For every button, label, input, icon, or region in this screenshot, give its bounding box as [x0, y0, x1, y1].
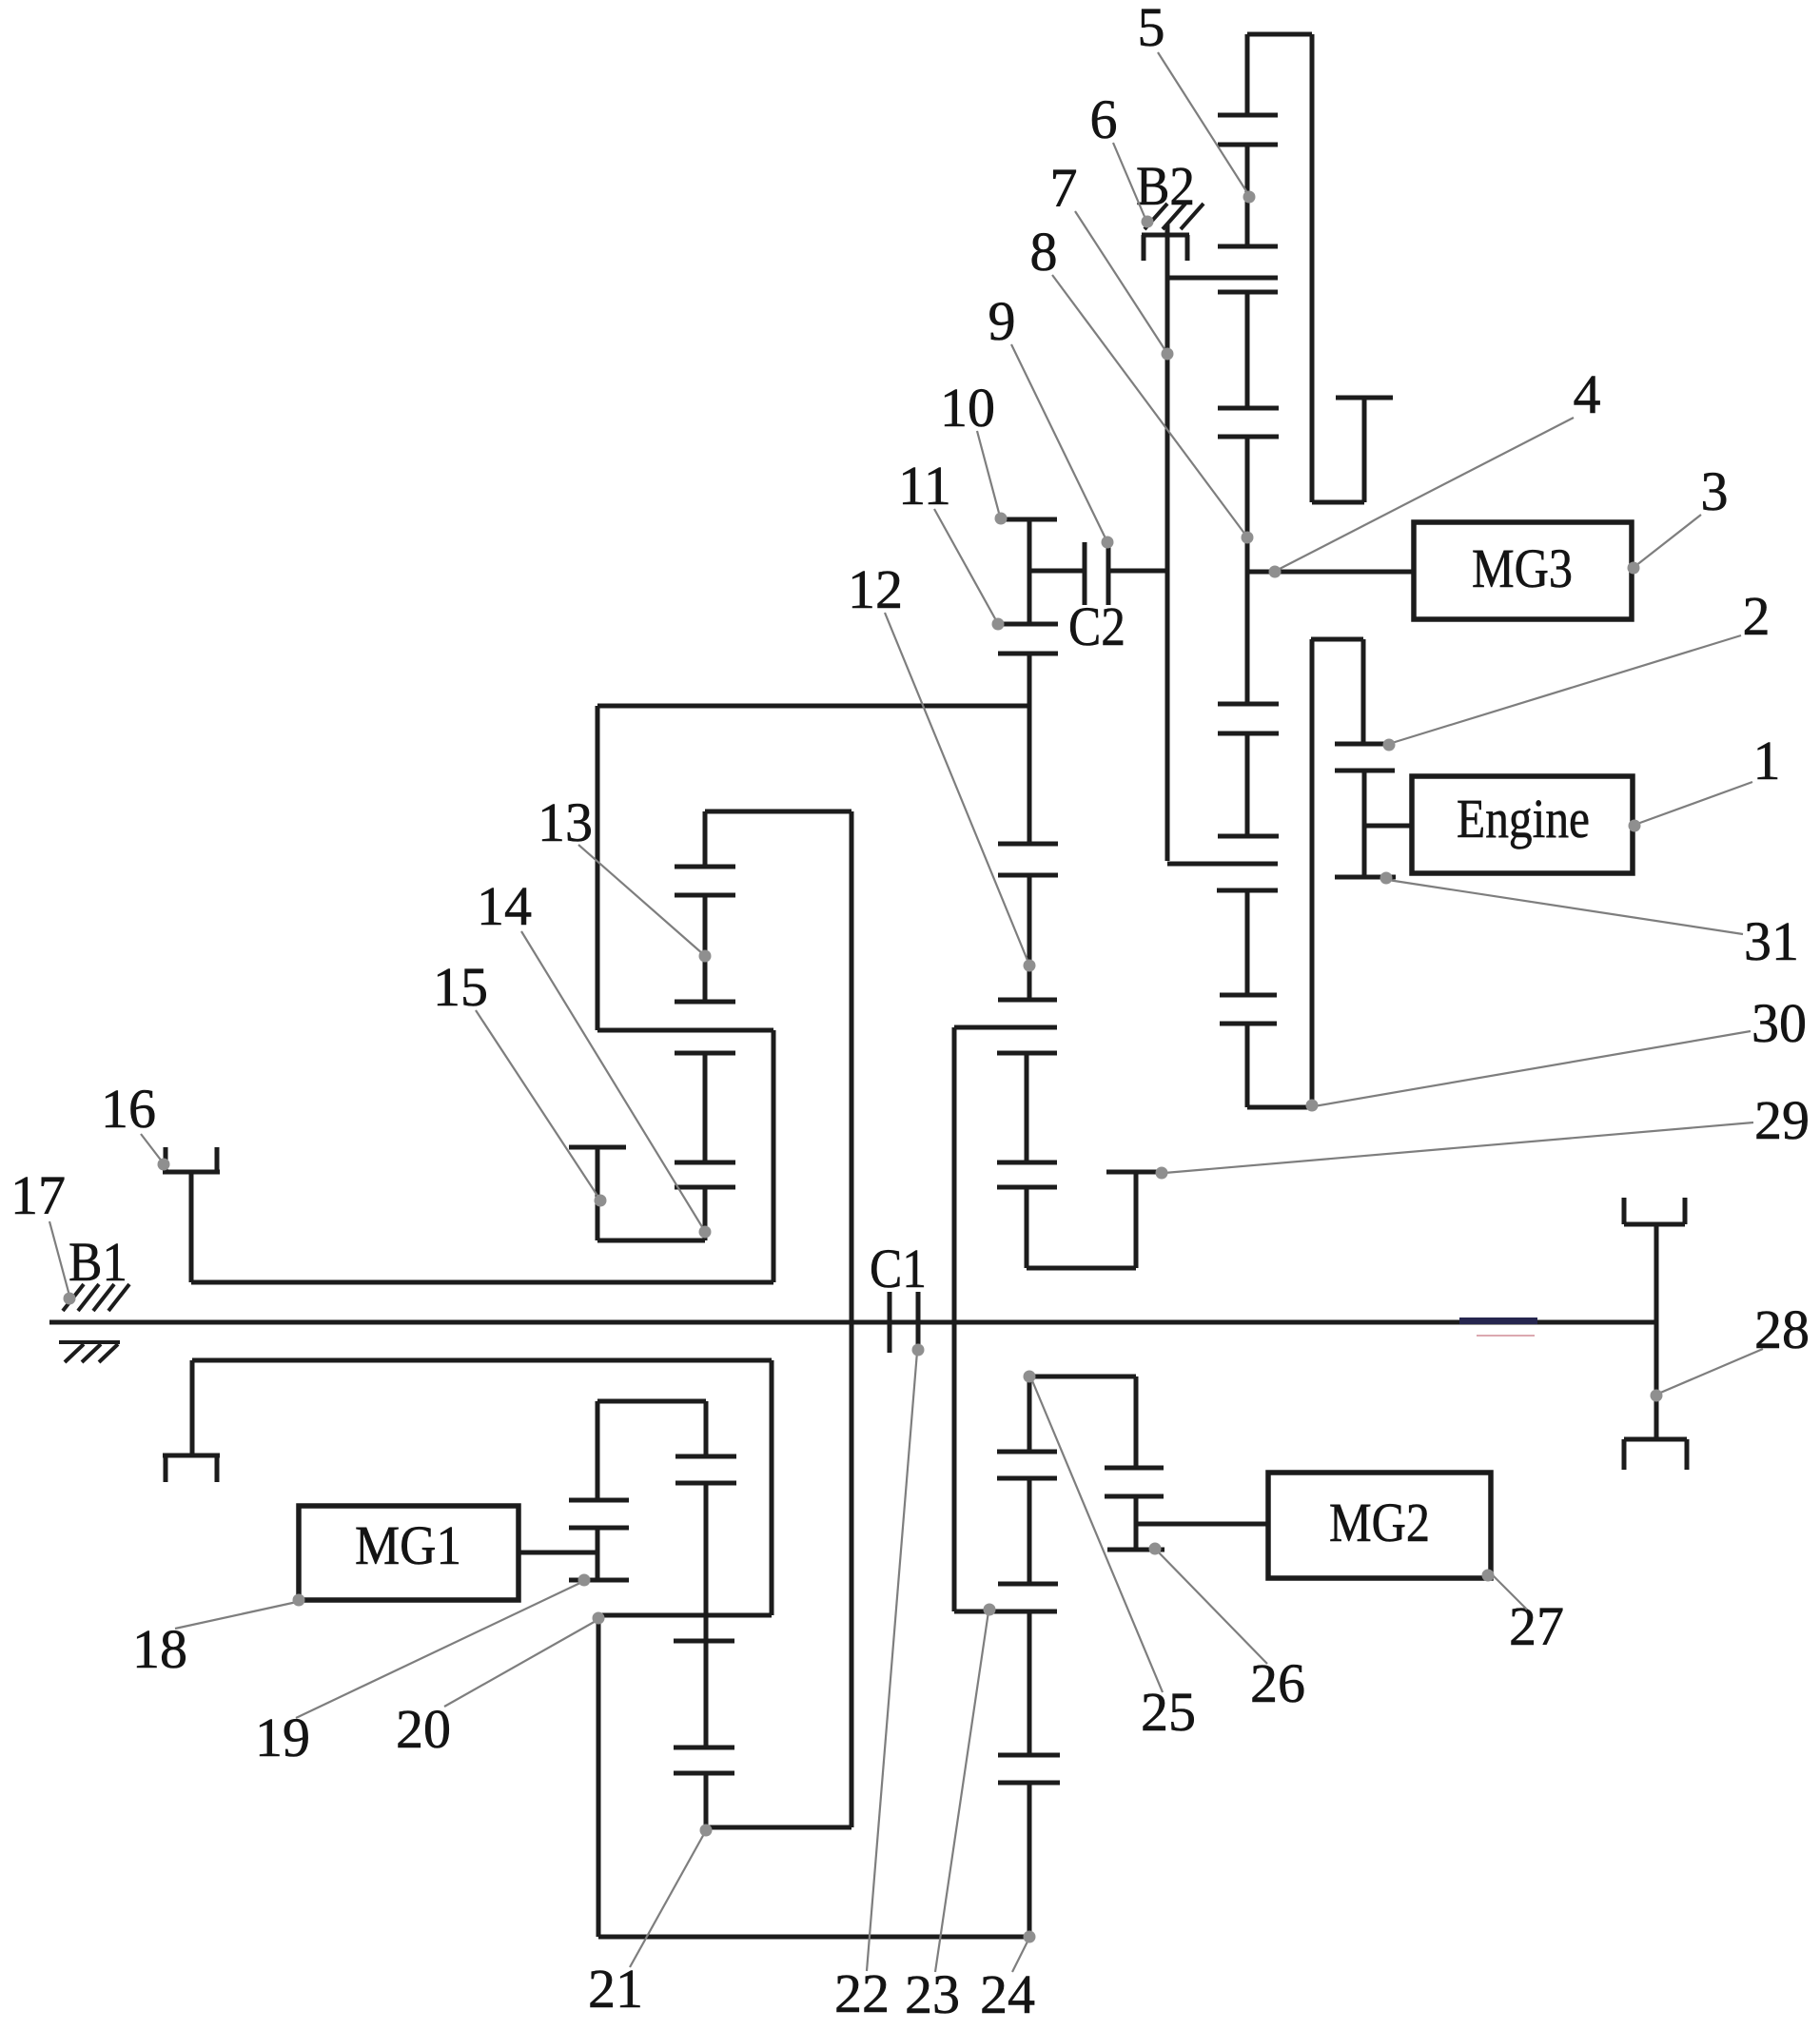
brake B1 ground hatch upper	[63, 1284, 129, 1311]
gear mesh plates pair y1577/1606	[569, 1500, 629, 1528]
wire right vertical x1379 lower	[1310, 639, 1315, 1107]
wire carrier line lower-left (y1430)	[192, 1358, 772, 1363]
label C2	[1068, 595, 1125, 657]
gear mesh plates pair y121/152	[1218, 115, 1278, 145]
gear mesh plates pair y740/771	[1218, 704, 1279, 733]
leader 12	[885, 613, 1036, 972]
svg-text:B2: B2	[1136, 155, 1195, 217]
output element 28 lower bracket	[1624, 1439, 1687, 1470]
stem x1433 y672-782	[1361, 639, 1366, 744]
svg-text:11: 11	[898, 455, 951, 517]
svg-text:6: 6	[1090, 88, 1118, 150]
wire long vertical x1003	[952, 1027, 957, 1611]
stem x1194 y1447-1543	[1134, 1376, 1139, 1468]
svg-text:24: 24	[980, 1963, 1035, 2025]
label 30	[1752, 992, 1807, 1054]
gear mesh plates pair y429/459	[1218, 408, 1279, 437]
gear mesh plates pair y1526/1554	[997, 1452, 1057, 1478]
stem x1082 y1554-1665	[1027, 1478, 1032, 1584]
element 29 arm x1194	[1134, 1172, 1139, 1268]
gear mesh plate y259	[1218, 244, 1278, 249]
svg-text:10: 10	[940, 377, 995, 439]
gear mesh plate y1107 center	[997, 1051, 1057, 1056]
leader 3	[1628, 515, 1702, 575]
svg-text:31: 31	[1744, 910, 1799, 972]
faint pink artifact line	[1477, 1335, 1535, 1337]
sun shaft stem x741 upper	[703, 811, 708, 867]
label 28	[1754, 1298, 1810, 1360]
gear mesh plates pair y1046/1076	[1220, 995, 1277, 1024]
gear mesh plate y1665	[998, 1582, 1058, 1587]
leader 18	[175, 1594, 305, 1630]
label 27	[1509, 1595, 1564, 1657]
wire vertical x811	[770, 1360, 774, 1615]
wire shaft blue tint segment	[1459, 1318, 1537, 1324]
wire main shaft	[49, 1320, 1655, 1325]
svg-text:2: 2	[1743, 585, 1771, 647]
label 2	[1743, 585, 1771, 647]
label 3	[1701, 460, 1729, 522]
output element 28 upper bracket	[1624, 1198, 1685, 1224]
leader 31	[1380, 872, 1744, 935]
carrier line y1694	[954, 1610, 1057, 1614]
output stem x1741	[1654, 1224, 1659, 1439]
clutch C2 plates	[1085, 542, 1108, 605]
svg-text:5: 5	[1138, 0, 1165, 58]
gear mesh plate y1725	[674, 1639, 734, 1644]
svg-text:MG2: MG2	[1329, 1492, 1430, 1553]
label 17	[10, 1164, 66, 1226]
carrier line y1080	[954, 1025, 1057, 1030]
svg-text:C2: C2	[1068, 595, 1125, 657]
label 29	[1754, 1089, 1810, 1151]
label 23	[905, 1963, 960, 2025]
stem x1082 y687-887	[1027, 654, 1032, 844]
leader 15	[476, 1010, 607, 1207]
label 13	[538, 791, 593, 853]
stem x742 to cup	[704, 1773, 709, 1827]
wire element30 bottom y1164	[1247, 1105, 1312, 1110]
ring bracket 13 top edge	[597, 704, 1029, 709]
svg-text:3: 3	[1701, 460, 1729, 522]
svg-text:C1: C1	[870, 1238, 927, 1299]
stem x1082 y1694-1845	[1027, 1611, 1032, 1755]
svg-text:25: 25	[1141, 1681, 1196, 1743]
svg-text:4: 4	[1574, 363, 1601, 425]
stem x1311 y152-259	[1245, 145, 1250, 246]
ring bracket 13 left edge upper	[596, 706, 600, 1030]
leader 29	[1156, 1122, 1754, 1180]
wire vertical x813	[772, 1030, 776, 1282]
label 7	[1050, 157, 1078, 219]
leader 19	[296, 1574, 591, 1719]
leader 1	[1629, 782, 1753, 832]
stem x1311 y459-740 with MG3 tee	[1245, 437, 1250, 704]
leader 16	[141, 1134, 170, 1171]
node 16 lower bracket	[163, 1360, 220, 1482]
gear mesh plates pair y1531/1559	[675, 1456, 736, 1483]
svg-text:12: 12	[848, 558, 903, 620]
leader 5	[1158, 52, 1256, 204]
leader 10	[977, 431, 1008, 525]
label 12	[848, 558, 903, 620]
gear mesh plate y879	[1218, 834, 1279, 839]
svg-text:1: 1	[1753, 730, 1781, 791]
gear mesh plate y1107	[675, 1051, 735, 1056]
label 14	[477, 875, 532, 937]
gear mesh plate y1051	[998, 998, 1057, 1003]
leader 24	[1012, 1931, 1036, 1973]
element 10 tee bar	[999, 517, 1057, 522]
svg-text:15: 15	[433, 956, 488, 1018]
label 9	[988, 290, 1016, 352]
gear mesh plate y936	[1217, 888, 1278, 893]
carrier bracket top edge y1447	[1029, 1375, 1136, 1379]
stem x1082 y1874-2036	[1027, 1783, 1032, 1937]
leader 25	[1024, 1371, 1164, 1693]
ring bracket 21 left edge lower	[597, 1617, 601, 1937]
svg-text:26: 26	[1250, 1652, 1305, 1714]
label 25	[1141, 1681, 1196, 1743]
wire MG2 shaft	[1136, 1522, 1268, 1527]
label 4	[1574, 363, 1601, 425]
carrier 14 inner top edge	[705, 810, 851, 814]
wire C2 shaft right	[1108, 569, 1167, 574]
svg-text:28: 28	[1754, 1298, 1810, 1360]
label B2	[1136, 155, 1195, 217]
svg-text:16: 16	[101, 1078, 156, 1140]
svg-text:Engine: Engine	[1457, 788, 1590, 849]
label 1	[1753, 730, 1781, 791]
wire MG3 shaft	[1247, 570, 1413, 575]
tee bracket top right bar	[1336, 396, 1393, 400]
svg-text:23: 23	[905, 1963, 960, 2025]
svg-text:MG3: MG3	[1472, 537, 1573, 599]
label 21	[588, 1958, 643, 2020]
stem x1079 y1107-1222	[1025, 1053, 1029, 1162]
leader 2	[1383, 635, 1742, 751]
label 6	[1090, 88, 1118, 150]
wire engine shaft	[1364, 824, 1413, 829]
gear mesh plates pair y1845/1874	[998, 1755, 1060, 1783]
gear mesh plate y922	[1335, 875, 1396, 880]
leader 27	[1482, 1570, 1528, 1610]
label 19	[255, 1707, 310, 1768]
gear mesh plates pair y782/810	[1335, 744, 1395, 771]
gear mesh plates pair y1837/1864	[674, 1747, 734, 1773]
svg-text:B1: B1	[68, 1231, 127, 1293]
stem x1311 y307-429	[1245, 292, 1250, 408]
gear mesh plates 11 pair y656/687	[998, 624, 1058, 654]
wire right vertical x1379 upper	[1310, 34, 1315, 502]
brake B2 bracket	[1142, 235, 1189, 261]
carrier bracket top edge y1473	[597, 1399, 706, 1404]
svg-text:14: 14	[477, 875, 532, 937]
stem x1082 y1447-1526	[1027, 1376, 1032, 1452]
gear mesh plate y1629	[1107, 1548, 1164, 1552]
label 26	[1250, 1652, 1305, 1714]
brake B1 ground hatch lower	[59, 1342, 120, 1362]
gear mesh plate y1661	[569, 1578, 629, 1583]
tee bracket stem	[1362, 398, 1367, 502]
motor MG2 box	[1268, 1473, 1491, 1578]
label B1	[68, 1231, 127, 1293]
leader 20	[444, 1612, 605, 1708]
stem x742 upper	[704, 1401, 709, 1456]
gear mesh plates pair y1222/1248 center	[997, 1162, 1057, 1187]
label 15	[433, 956, 488, 1018]
cup bottom y1921	[706, 1825, 851, 1830]
svg-text:29: 29	[1754, 1089, 1810, 1151]
wire rect top edge y1698	[598, 1613, 772, 1618]
svg-text:8: 8	[1030, 221, 1058, 283]
label 20	[396, 1698, 451, 1760]
gear mesh plates pair y1222/1248	[675, 1162, 735, 1187]
leader 6	[1113, 143, 1154, 228]
gear mesh plate y307	[1218, 290, 1278, 295]
wire carrier line upper-left (y1348)	[191, 1280, 773, 1285]
leader 7	[1075, 211, 1174, 361]
stem x1311 y1076-1164	[1245, 1024, 1250, 1107]
element 15 tee bar	[569, 1145, 626, 1150]
bridge cap top y672	[1311, 637, 1363, 642]
leader 13	[578, 845, 712, 963]
cup bottom left PG	[597, 1239, 705, 1243]
label 24	[980, 1963, 1035, 2025]
stem x1082 from 10	[1027, 519, 1032, 624]
clutch C1 plates	[890, 1292, 918, 1353]
stem x1082 y920-1051	[1027, 875, 1032, 1000]
leader 23	[935, 1604, 996, 1973]
leader 17	[49, 1221, 76, 1305]
svg-text:17: 17	[10, 1164, 66, 1226]
label 11	[898, 455, 951, 517]
gear mesh plates pair y1543/1573	[1105, 1468, 1164, 1496]
label 22	[834, 1962, 890, 2024]
leader 9	[1011, 344, 1114, 549]
leader 4	[1269, 418, 1575, 578]
leader 11	[934, 509, 1005, 631]
stem x741 to cup	[703, 1187, 708, 1240]
leader 8	[1052, 275, 1254, 544]
stem x1311 y936-1046	[1245, 890, 1250, 995]
svg-text:9: 9	[988, 290, 1016, 352]
leader 22	[867, 1344, 925, 1972]
top bracket ring 5	[1247, 34, 1312, 115]
stem x628 upper	[596, 1401, 600, 1500]
stem x1311 y771-879	[1245, 733, 1250, 836]
gear mesh plates pair y887/920	[998, 844, 1058, 875]
node 16 upper bracket	[163, 1147, 220, 1282]
stem x1079 to cup	[1025, 1187, 1029, 1268]
stem x742 long	[704, 1483, 709, 1641]
svg-text:MG1: MG1	[355, 1514, 461, 1576]
leader 28	[1651, 1349, 1764, 1402]
stem x1434 y810-922 with Engine tee	[1362, 771, 1367, 877]
label 8	[1030, 221, 1058, 283]
label 5	[1138, 0, 1165, 58]
svg-text:30: 30	[1752, 992, 1807, 1054]
brake B2 hatch	[1145, 204, 1204, 229]
carrier line y292	[1167, 276, 1278, 281]
wire long vertical x895	[850, 811, 854, 1827]
cup bottom y1333	[1027, 1266, 1136, 1271]
leader 30	[1306, 1031, 1752, 1112]
element 29 tee bar	[1106, 1170, 1162, 1175]
stem between meshes x741	[703, 895, 708, 1002]
wire MG1 shaft	[519, 1551, 597, 1555]
stem x628 with MG1 tee	[596, 1528, 600, 1580]
stem x741 mid	[703, 1053, 708, 1162]
stem x742 lower	[704, 1641, 709, 1747]
motor MG3 box	[1414, 522, 1632, 619]
wire B2 bend y908	[1167, 862, 1278, 867]
wire C2 shaft left	[1029, 569, 1085, 574]
label 18	[132, 1618, 187, 1680]
stem x1194 with MG2 tee	[1134, 1496, 1139, 1550]
label 16	[101, 1078, 156, 1140]
label 10	[940, 377, 995, 439]
svg-text:13: 13	[538, 791, 593, 853]
label 31	[1744, 910, 1799, 972]
wire carrier line y1083	[597, 1028, 773, 1033]
svg-text:21: 21	[588, 1958, 643, 2020]
ring bracket 21 bottom edge	[598, 1935, 1029, 1940]
motor MG1 box	[299, 1506, 519, 1600]
leader 26	[1149, 1543, 1268, 1665]
wire B2 stem x1227	[1165, 224, 1170, 861]
wire y528 link	[1312, 500, 1364, 505]
svg-text:27: 27	[1509, 1595, 1564, 1657]
leader 21	[630, 1825, 713, 1968]
label C1	[870, 1238, 927, 1299]
svg-text:20: 20	[396, 1698, 451, 1760]
svg-text:22: 22	[834, 1962, 890, 2024]
gear mesh plate y1053	[675, 1000, 735, 1005]
svg-text:7: 7	[1050, 157, 1078, 219]
gear mesh plates 13 upper pair	[675, 867, 735, 895]
element 15 tee stem	[596, 1147, 600, 1240]
engine box	[1412, 776, 1633, 873]
leader 14	[521, 931, 712, 1239]
